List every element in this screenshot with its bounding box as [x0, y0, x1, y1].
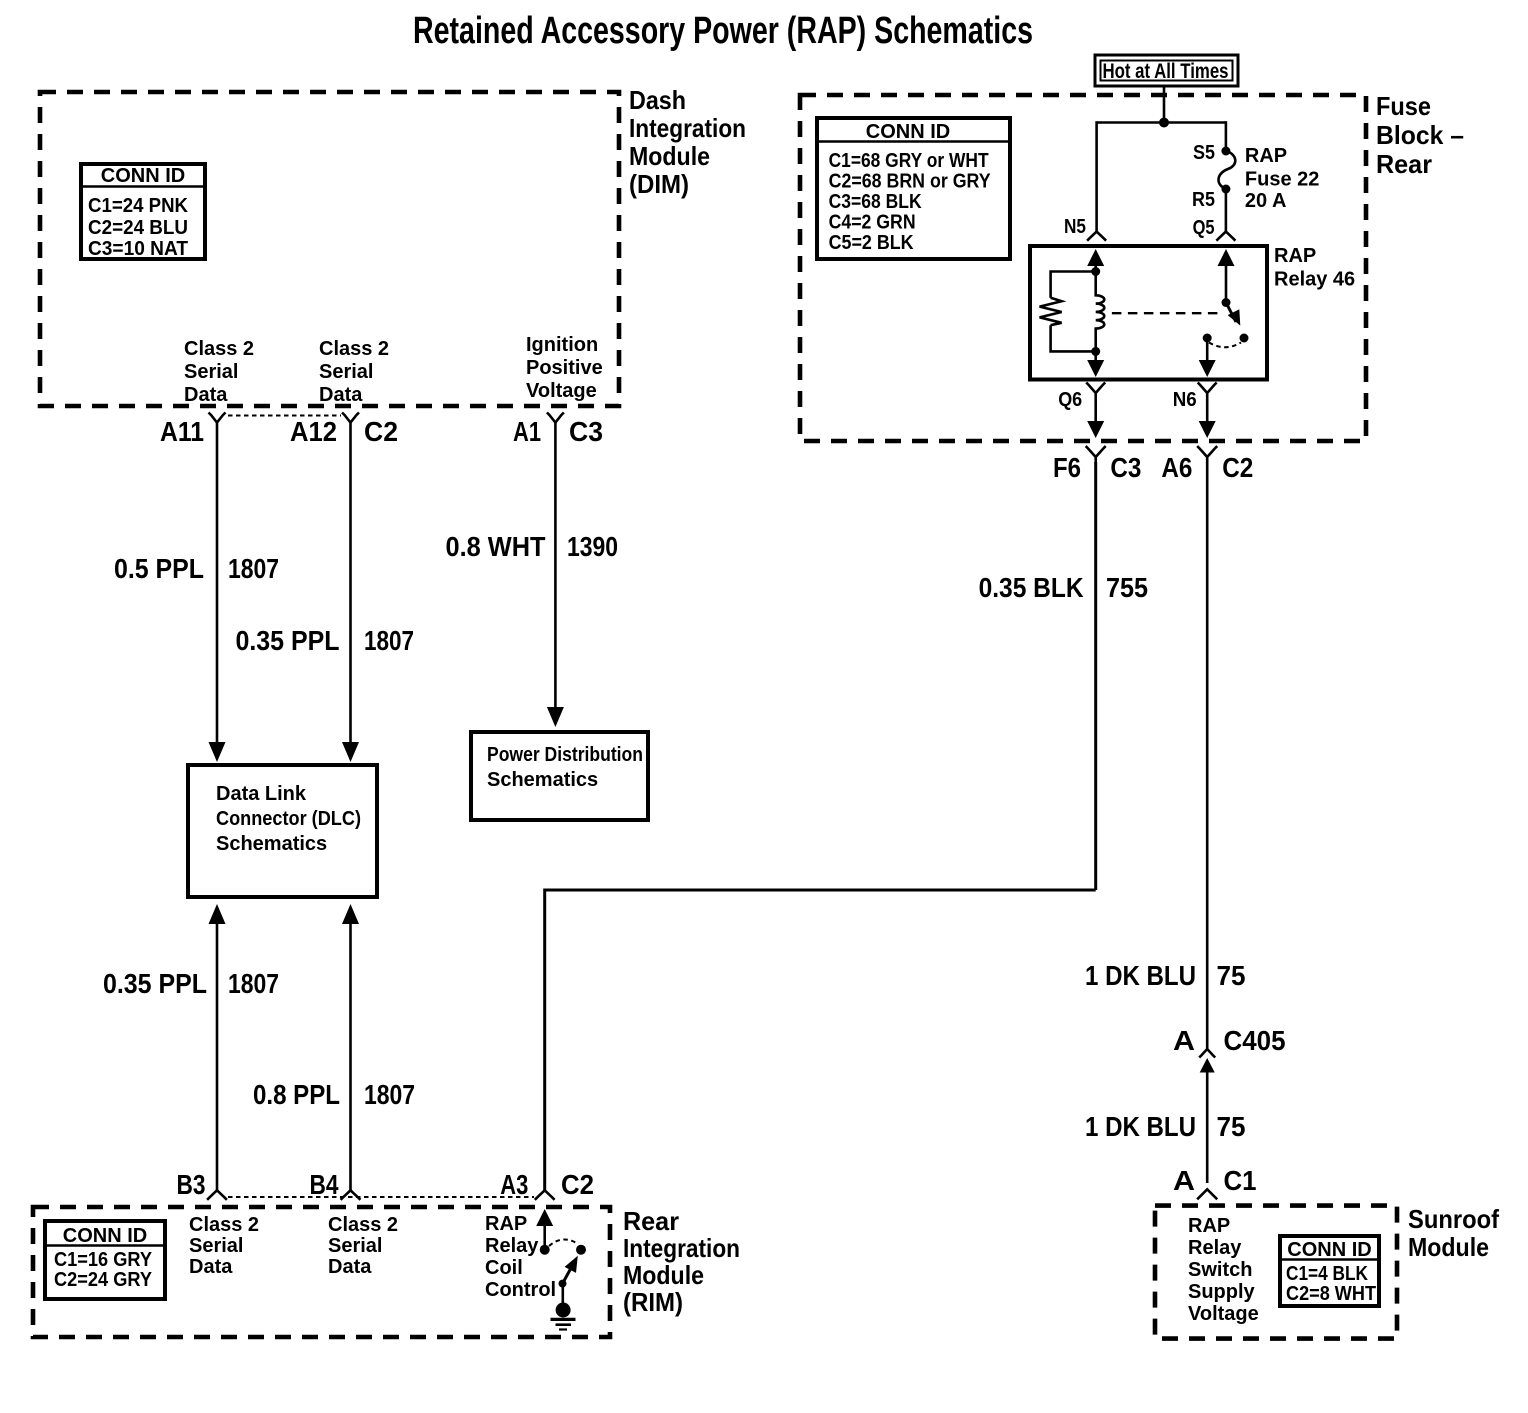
wire Q6 to fuse block edge with arrow	[1087, 407, 1104, 438]
svg-text:C3: C3	[1110, 452, 1141, 483]
wire label 0.8 PPL	[253, 1079, 340, 1110]
svg-text:Ignition: Ignition	[526, 334, 598, 356]
svg-text:Relay: Relay	[485, 1235, 539, 1257]
pin label C2 (fuse block)	[1222, 452, 1253, 483]
relay coil (inductor bumps)	[1096, 272, 1105, 352]
pin label S5	[1193, 142, 1215, 164]
svg-text:(DIM): (DIM)	[629, 169, 689, 199]
svg-text:A11: A11	[160, 416, 204, 447]
svg-text:F6: F6	[1053, 452, 1081, 483]
pin label A6	[1161, 452, 1192, 483]
box: Power Distribution Schematics	[471, 732, 648, 820]
svg-text:C2=24 BLU: C2=24 BLU	[88, 217, 188, 239]
terminal Q6 (goblet)	[1086, 383, 1105, 408]
svg-text:75: 75	[1217, 960, 1246, 991]
svg-text:CONN ID: CONN ID	[101, 165, 185, 187]
svg-text:Schematics: Schematics	[487, 769, 598, 791]
wire label 0.8 WHT	[446, 531, 546, 562]
svg-text:Integration: Integration	[629, 113, 746, 143]
wire RAP relay coil control: RIM A3 up, right, joins F6 drop	[545, 890, 1096, 1190]
relay switch blade with arrow	[1226, 303, 1240, 326]
svg-text:N6: N6	[1173, 389, 1197, 411]
svg-text:Q5: Q5	[1193, 217, 1215, 239]
box: Data Link Connector (DLC) Schematics	[188, 765, 377, 897]
node label: Hot at All Times	[1095, 55, 1238, 86]
relay resistor branch (parallel)	[1051, 272, 1096, 298]
svg-text:Positive: Positive	[526, 357, 603, 379]
svg-text:Switch: Switch	[1188, 1259, 1252, 1281]
wire label 1807 (B3 wire)	[228, 968, 279, 999]
wire fuse R5 to Q5	[1225, 189, 1228, 232]
svg-text:Control: Control	[485, 1279, 556, 1301]
pin label A1	[513, 416, 541, 447]
svg-text:C405: C405	[1224, 1025, 1286, 1056]
svg-text:(RIM): (RIM)	[623, 1287, 683, 1317]
svg-text:Dash: Dash	[629, 85, 686, 115]
label RAP Fuse 22 20 A	[1245, 145, 1319, 212]
module box: Fuse Block - Rear	[800, 95, 1366, 441]
wire label 0.5 PPL	[114, 553, 204, 584]
pin function label: Class 2 Serial Data (B3)	[189, 1214, 259, 1278]
resistor zigzag	[1040, 298, 1062, 325]
svg-text:C1=24 PNK: C1=24 PNK	[88, 195, 189, 217]
wire blade to ground	[561, 1284, 564, 1303]
svg-text:N5: N5	[1064, 216, 1086, 238]
pin label N5	[1064, 216, 1086, 238]
wire A6 down to C405 (1 DK BLU 75)	[1206, 462, 1209, 1049]
svg-text:Data: Data	[319, 384, 363, 406]
CONN ID table (DIM)	[81, 164, 205, 260]
fuse terminal node S5	[1221, 147, 1230, 156]
svg-text:C1: C1	[1224, 1165, 1257, 1196]
svg-text:C1=68 GRY or WHT: C1=68 GRY or WHT	[829, 150, 989, 172]
svg-text:Module: Module	[623, 1260, 704, 1290]
CONN ID table (RIM)	[45, 1221, 165, 1299]
CONN ID table (Sunroof)	[1280, 1236, 1379, 1306]
connector body dashed line (RIM connector)	[228, 1196, 534, 1198]
relay coil input arrow (N5 side)	[1087, 249, 1104, 272]
svg-text:1807: 1807	[228, 553, 279, 584]
svg-text:Fuse: Fuse	[1376, 91, 1431, 121]
svg-text:C4=2 GRN: C4=2 GRN	[829, 212, 916, 234]
wire label 75 (upper)	[1217, 960, 1246, 991]
svg-text:0.8 WHT: 0.8 WHT	[446, 531, 546, 562]
svg-text:0.35 PPL: 0.35 PPL	[103, 968, 207, 999]
connector symbol A1 (female Y)	[547, 413, 564, 423]
svg-text:Data: Data	[184, 384, 228, 406]
label RAP Relay 46	[1274, 245, 1355, 291]
svg-text:Integration: Integration	[623, 1233, 740, 1263]
wire label 1 DK BLU (lower)	[1085, 1111, 1196, 1142]
relay switch contact node (right)	[1240, 334, 1249, 343]
connector symbol F6/C3 (female Y below fuse block)	[1086, 446, 1106, 463]
svg-text:Fuse 22: Fuse 22	[1245, 169, 1319, 191]
wire A11 to DLC (0.5 PPL 1807)	[209, 423, 226, 763]
pin label Q5	[1193, 217, 1215, 239]
junction node on feed rail	[1159, 118, 1169, 128]
pin label F6	[1053, 452, 1081, 483]
module box: Rear Integration Module (RIM)	[33, 1207, 610, 1337]
svg-text:Module: Module	[1408, 1232, 1489, 1262]
svg-text:S5: S5	[1193, 142, 1215, 164]
label: Sunroof Module	[1408, 1204, 1499, 1262]
svg-text:Serial: Serial	[189, 1235, 243, 1257]
connector symbol B4 (male fork)	[341, 1190, 361, 1200]
pin label C1 (sunroof)	[1224, 1165, 1257, 1196]
RIM internal arrow up at A3	[536, 1209, 553, 1250]
wire from Hot at All Times	[1163, 86, 1166, 123]
svg-text:20 A: 20 A	[1245, 190, 1287, 212]
svg-text:1807: 1807	[228, 968, 279, 999]
wire label 75 (lower)	[1217, 1111, 1246, 1142]
pin function label: Class 2 Serial Data (A12)	[319, 338, 389, 406]
relay switch contact node (left, N6)	[1203, 334, 1212, 343]
wire F6 down to corner (0.35 BLK 755)	[1094, 462, 1097, 890]
connector symbol B3 (male fork)	[207, 1190, 227, 1200]
svg-text:C5=2 BLK: C5=2 BLK	[829, 232, 914, 254]
svg-text:Sunroof: Sunroof	[1408, 1204, 1499, 1234]
RIM switch travel dashed arc	[549, 1239, 578, 1246]
pin label Q6	[1058, 389, 1082, 411]
svg-text:C3=68 BLK: C3=68 BLK	[829, 191, 922, 213]
svg-text:A12: A12	[290, 416, 337, 447]
relay switch travel dashed arc	[1209, 343, 1241, 348]
wire label 0.35 PPL	[236, 625, 340, 656]
module box: Dash Integration Module (DIM)	[40, 92, 619, 406]
svg-text:1 DK BLU: 1 DK BLU	[1085, 960, 1196, 991]
module box: Sunroof Module	[1155, 1206, 1397, 1339]
svg-text:RAP: RAP	[485, 1213, 527, 1235]
wire label 1807 (B4 wire)	[364, 1079, 415, 1110]
svg-text:0.8 PPL: 0.8 PPL	[253, 1079, 340, 1110]
wire B4 to DLC (0.8 PPL 1807)	[342, 904, 359, 1190]
svg-text:C1=4 BLK: C1=4 BLK	[1286, 1263, 1368, 1285]
pin function label: Class 2 Serial Data (A11)	[184, 338, 254, 406]
connector body dashed line (DIM C2 connector)	[228, 415, 341, 417]
fuse RAP Fuse 22 20 A (element curve)	[1219, 151, 1236, 189]
svg-text:C3=10 NAT: C3=10 NAT	[88, 238, 188, 260]
wire B3 to DLC (0.35 PPL 1807)	[209, 904, 226, 1190]
svg-text:Supply: Supply	[1188, 1281, 1256, 1303]
feed rail wire	[1097, 121, 1226, 124]
svg-text:C2: C2	[364, 416, 398, 447]
svg-text:C2=24 GRY: C2=24 GRY	[54, 1269, 153, 1291]
svg-text:Voltage: Voltage	[1188, 1303, 1259, 1325]
RIM switch blade with arrow	[563, 1256, 578, 1284]
svg-text:Connector (DLC): Connector (DLC)	[216, 808, 361, 830]
svg-text:C2: C2	[1222, 452, 1253, 483]
svg-text:C2=8 WHT: C2=8 WHT	[1286, 1283, 1376, 1305]
svg-text:1 DK BLU: 1 DK BLU	[1085, 1111, 1196, 1142]
svg-text:Class 2: Class 2	[319, 338, 389, 360]
svg-text:Data: Data	[189, 1256, 233, 1278]
svg-text:C1=16 GRY: C1=16 GRY	[54, 1249, 153, 1271]
svg-text:Class 2: Class 2	[328, 1214, 398, 1236]
svg-text:C2: C2	[561, 1169, 594, 1200]
pin function label: Class 2 Serial Data (B4)	[328, 1214, 398, 1278]
svg-text:1390: 1390	[567, 531, 618, 562]
relay switch output arrow to N6	[1199, 338, 1216, 377]
terminal Q5 (fork)	[1216, 232, 1235, 241]
pin label A11	[160, 416, 204, 447]
RIM switch elbow node	[559, 1280, 567, 1288]
svg-text:RAP: RAP	[1245, 145, 1287, 167]
svg-text:CONN ID: CONN ID	[1287, 1239, 1371, 1261]
wire label 0.35 PPL (B3 wire)	[103, 968, 207, 999]
svg-text:Data: Data	[328, 1256, 372, 1278]
connector symbol A6/C2 (female Y below fuse block)	[1197, 446, 1217, 463]
svg-text:0.35 BLK: 0.35 BLK	[979, 572, 1084, 603]
wire label 1807 (A12 wire)	[364, 625, 414, 656]
svg-text:CONN ID: CONN ID	[866, 121, 950, 143]
svg-text:Relay: Relay	[1188, 1237, 1242, 1259]
svg-text:C3: C3	[569, 416, 603, 447]
svg-text:Block –: Block –	[1376, 120, 1464, 150]
pin label A (C405)	[1173, 1025, 1195, 1056]
fuse terminal node R5	[1221, 185, 1230, 194]
pin label A3	[500, 1169, 528, 1200]
pin label A12	[290, 416, 337, 447]
RIM switch pivot node	[540, 1245, 550, 1255]
relay actuation dashed link	[1112, 312, 1222, 314]
svg-text:Module: Module	[629, 141, 710, 171]
svg-text:1807: 1807	[364, 1079, 415, 1110]
svg-text:Retained Accessory Power (RAP: Retained Accessory Power (RAP) Schematic…	[413, 10, 1033, 52]
pin label A (C1)	[1173, 1165, 1195, 1196]
pin label C3 (fuse block)	[1110, 452, 1141, 483]
CONN ID table (Fuse Block)	[817, 118, 1010, 259]
svg-text:75: 75	[1217, 1111, 1246, 1142]
connector symbol A3 (male fork)	[535, 1190, 555, 1200]
title	[413, 10, 1033, 52]
wire N6 to fuse block edge with arrow	[1199, 407, 1216, 438]
relay coil bottom junction node	[1091, 347, 1100, 356]
svg-text:Q6: Q6	[1058, 389, 1082, 411]
wire rail to N5	[1095, 121, 1098, 231]
svg-text:Class 2: Class 2	[189, 1214, 259, 1236]
svg-text:RAP: RAP	[1274, 245, 1316, 267]
wire label 1807 (A11 wire)	[228, 553, 279, 584]
connector symbol A/C1 (fork at sunroof)	[1197, 1189, 1217, 1199]
pin label R5	[1192, 189, 1215, 211]
wire label 0.35 BLK	[979, 572, 1084, 603]
pin function label: RAP Relay Switch Supply Voltage	[1188, 1215, 1259, 1325]
svg-text:Class 2: Class 2	[184, 338, 254, 360]
svg-text:0.35 PPL: 0.35 PPL	[236, 625, 340, 656]
pin function label: Ignition Positive Voltage (A1)	[526, 334, 603, 402]
relay box: RAP Relay 46	[1030, 246, 1267, 380]
wire label 1 DK BLU (upper)	[1085, 960, 1196, 991]
svg-text:B3: B3	[177, 1169, 206, 1200]
pin label B4	[310, 1169, 339, 1200]
in-line connector C405 (fork + arrow)	[1199, 1049, 1215, 1183]
relay coil top junction node	[1091, 267, 1100, 276]
svg-text:C2=68 BRN or GRY: C2=68 BRN or GRY	[829, 171, 992, 193]
wire label 1390	[567, 531, 618, 562]
svg-text:Voltage: Voltage	[526, 380, 597, 402]
svg-text:Coil: Coil	[485, 1257, 523, 1279]
svg-text:Data Link: Data Link	[216, 783, 307, 805]
connector symbol A12 (female Y)	[342, 413, 359, 423]
svg-text:755: 755	[1106, 572, 1148, 603]
svg-text:Relay 46: Relay 46	[1274, 269, 1355, 291]
svg-text:A: A	[1173, 1165, 1195, 1196]
pin function label: RAP Relay Coil Control (A3)	[485, 1213, 556, 1301]
terminal N5 (fork)	[1087, 232, 1106, 241]
svg-text:RAP: RAP	[1188, 1215, 1230, 1237]
svg-text:Power Distribution: Power Distribution	[487, 744, 643, 766]
relay switch input arrow (Q5 side)	[1218, 249, 1235, 303]
svg-text:Rear: Rear	[1376, 149, 1432, 179]
pin label C2 (RIM)	[561, 1169, 594, 1200]
svg-text:Rear: Rear	[623, 1206, 679, 1236]
svg-text:A: A	[1173, 1025, 1195, 1056]
relay coil output arrow to Q6	[1087, 351, 1104, 377]
svg-text:1807: 1807	[364, 625, 414, 656]
svg-text:A6: A6	[1161, 452, 1192, 483]
pin label C3 (DIM)	[569, 416, 603, 447]
pin label C2 (DIM)	[364, 416, 398, 447]
wire rail to fuse S5	[1225, 121, 1228, 151]
svg-text:Serial: Serial	[328, 1235, 382, 1257]
ground symbol (RIM)	[551, 1303, 576, 1330]
wire label 755	[1106, 572, 1148, 603]
pin label C405	[1224, 1025, 1286, 1056]
RIM switch contact node	[576, 1245, 586, 1255]
svg-text:Hot at All Times: Hot at All Times	[1103, 60, 1229, 83]
svg-text:A1: A1	[513, 416, 541, 447]
pin label N6	[1173, 389, 1197, 411]
label: Rear Integration Module (RIM)	[623, 1206, 740, 1317]
label: Dash Integration Module (DIM)	[629, 85, 746, 199]
pin label B3	[177, 1169, 206, 1200]
svg-text:Serial: Serial	[319, 361, 373, 383]
svg-text:Serial: Serial	[184, 361, 238, 383]
relay switch pivot node	[1222, 298, 1231, 307]
svg-text:Schematics: Schematics	[216, 833, 327, 855]
svg-text:A3: A3	[500, 1169, 528, 1200]
svg-text:CONN ID: CONN ID	[63, 1225, 147, 1247]
resistor bottom lead	[1051, 325, 1096, 351]
svg-text:R5: R5	[1192, 189, 1215, 211]
label: Fuse Block - Rear	[1376, 91, 1464, 179]
svg-text:0.5 PPL: 0.5 PPL	[114, 553, 204, 584]
connector symbol A11 (female Y)	[209, 413, 226, 423]
wire A12 to DLC (0.35 PPL 1807)	[342, 423, 359, 763]
terminal N6 (goblet)	[1198, 383, 1217, 408]
svg-text:B4: B4	[310, 1169, 339, 1200]
wire A1 to Power Distribution (0.8 WHT 1390)	[547, 423, 564, 728]
